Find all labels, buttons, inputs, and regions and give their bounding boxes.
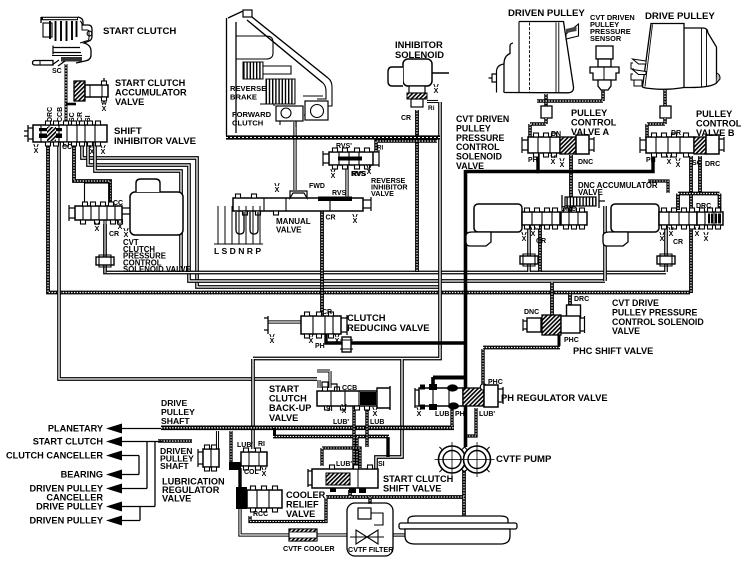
svg-text:RCC: RCC xyxy=(253,511,268,518)
svg-text:LUB': LUB' xyxy=(479,411,495,418)
svg-text:X: X xyxy=(34,148,39,155)
svg-text:CR: CR xyxy=(326,215,336,222)
svg-text:BEARING: BEARING xyxy=(61,470,103,480)
svg-text:SHIFT VALVE: SHIFT VALVE xyxy=(383,484,441,494)
svg-text:VALVE B: VALVE B xyxy=(696,128,735,138)
svg-text:L S D N R P: L S D N R P xyxy=(214,246,261,256)
svg-text:PH: PH xyxy=(455,411,465,418)
svg-text:START: START xyxy=(269,384,299,394)
svg-text:CR: CR xyxy=(673,239,683,246)
svg-text:RVS: RVS xyxy=(352,171,367,178)
svg-text:START CLUTCH: START CLUTCH xyxy=(33,437,104,447)
svg-text:VALVE: VALVE xyxy=(162,494,191,504)
svg-text:SI: SI xyxy=(326,406,333,413)
svg-text:DNC: DNC xyxy=(578,159,593,166)
svg-text:PHC: PHC xyxy=(488,379,503,386)
svg-text:LUB': LUB' xyxy=(336,461,352,468)
svg-text:X: X xyxy=(695,231,700,238)
svg-text:DN: DN xyxy=(551,131,561,138)
svg-text:REDUCING VALVE: REDUCING VALVE xyxy=(347,322,429,333)
svg-text:SOLENOID VALVE: SOLENOID VALVE xyxy=(123,265,191,274)
svg-text:DRC: DRC xyxy=(574,296,589,303)
svg-text:CR: CR xyxy=(77,112,84,122)
svg-text:START CLUTCH: START CLUTCH xyxy=(115,78,186,88)
svg-text:SENSOR: SENSOR xyxy=(590,34,622,43)
svg-text:START CLUTCH: START CLUTCH xyxy=(103,26,176,37)
svg-text:SOLENOID: SOLENOID xyxy=(395,49,444,60)
svg-text:CR: CR xyxy=(401,115,411,122)
svg-text:VALVE: VALVE xyxy=(456,161,484,171)
svg-text:DRC: DRC xyxy=(696,203,711,210)
svg-text:SC: SC xyxy=(69,112,76,122)
svg-text:PLANETARY: PLANETARY xyxy=(48,424,103,434)
svg-text:VALVE: VALVE xyxy=(115,97,144,107)
svg-text:X: X xyxy=(118,224,123,231)
svg-text:CCB: CCB xyxy=(57,107,64,122)
svg-text:X: X xyxy=(669,231,674,238)
svg-text:SI: SI xyxy=(85,115,92,122)
svg-text:X: X xyxy=(335,338,340,345)
svg-text:RVS: RVS xyxy=(332,190,347,197)
svg-text:PH: PH xyxy=(528,157,538,164)
svg-text:PH: PH xyxy=(646,157,656,164)
svg-text:LUB': LUB' xyxy=(333,419,349,426)
svg-text:PH: PH xyxy=(315,343,325,350)
svg-text:X: X xyxy=(342,408,347,415)
svg-text:X: X xyxy=(660,236,665,243)
svg-text:BACK-UP: BACK-UP xyxy=(269,403,311,413)
svg-text:CC: CC xyxy=(113,200,123,207)
svg-text:X: X xyxy=(551,159,556,166)
svg-text:LUB: LUB xyxy=(370,419,384,426)
svg-text:DNC: DNC xyxy=(561,206,576,213)
svg-text:CVTF FILTER: CVTF FILTER xyxy=(348,545,394,554)
svg-text:LUB: LUB xyxy=(435,411,449,418)
svg-text:X: X xyxy=(704,236,709,243)
svg-text:X: X xyxy=(275,187,280,194)
svg-text:VALVE A: VALVE A xyxy=(571,127,609,137)
svg-text:DNC: DNC xyxy=(524,309,539,316)
svg-text:VALVE: VALVE xyxy=(612,326,640,336)
svg-text:RI: RI xyxy=(377,145,383,152)
svg-text:X: X xyxy=(522,236,527,243)
svg-text:X: X xyxy=(90,149,95,156)
svg-text:X: X xyxy=(353,218,358,225)
svg-text:PHC SHIFT VALVE: PHC SHIFT VALVE xyxy=(573,346,653,356)
svg-text:SI: SI xyxy=(378,461,385,468)
svg-text:CLUTCH: CLUTCH xyxy=(232,118,263,127)
svg-text:SC: SC xyxy=(692,160,702,167)
svg-text:X: X xyxy=(262,471,267,478)
svg-text:CLUTCH CANCELLER: CLUTCH CANCELLER xyxy=(6,451,103,461)
svg-text:SHAFT: SHAFT xyxy=(160,461,189,471)
svg-text:INHIBITOR VALVE: INHIBITOR VALVE xyxy=(114,136,197,147)
svg-text:CR: CR xyxy=(536,238,546,245)
svg-text:PH REGULATOR VALVE: PH REGULATOR VALVE xyxy=(501,392,608,403)
svg-text:DR: DR xyxy=(671,130,681,137)
svg-text:VALVE: VALVE xyxy=(286,509,315,519)
svg-text:X: X xyxy=(95,226,100,233)
svg-text:DRC: DRC xyxy=(705,161,720,168)
svg-text:X: X xyxy=(667,159,672,166)
svg-text:CANCELLER: CANCELLER xyxy=(46,493,103,503)
svg-text:CC: CC xyxy=(62,144,72,151)
svg-text:X: X xyxy=(367,169,372,176)
svg-text:DRIVE PULLEY: DRIVE PULLEY xyxy=(645,11,715,22)
svg-text:X: X xyxy=(373,411,378,418)
svg-text:CVTF COOLER: CVTF COOLER xyxy=(283,544,335,553)
svg-text:CR: CR xyxy=(109,231,119,238)
svg-text:START CLUTCH: START CLUTCH xyxy=(383,474,454,484)
svg-text:PHC: PHC xyxy=(564,337,579,344)
svg-text:RI: RI xyxy=(258,441,265,448)
svg-text:X: X xyxy=(434,88,439,95)
svg-text:ACCUMULATOR: ACCUMULATOR xyxy=(115,88,187,98)
svg-text:CVTF PUMP: CVTF PUMP xyxy=(496,454,552,465)
svg-text:VALVE: VALVE xyxy=(276,226,302,235)
svg-text:X: X xyxy=(101,149,106,156)
svg-text:X: X xyxy=(331,173,336,180)
svg-text:DRC: DRC xyxy=(47,107,54,122)
svg-text:CR: CR xyxy=(322,309,332,316)
svg-text:X: X xyxy=(309,338,314,345)
svg-text:RELIEF: RELIEF xyxy=(286,500,319,510)
svg-text:X: X xyxy=(102,106,107,113)
svg-text:Ri: Ri xyxy=(428,105,435,112)
svg-text:X: X xyxy=(531,231,536,238)
svg-text:SC: SC xyxy=(52,68,62,75)
svg-text:VALVE: VALVE xyxy=(371,189,394,198)
svg-text:SHAFT: SHAFT xyxy=(161,416,190,426)
svg-text:X: X xyxy=(270,338,275,345)
svg-text:FWD: FWD xyxy=(309,183,325,190)
svg-text:DRIVEN PULLEY: DRIVEN PULLEY xyxy=(29,516,103,526)
svg-text:BRAKE: BRAKE xyxy=(230,92,257,101)
svg-text:CCB: CCB xyxy=(342,385,357,392)
svg-text:X: X xyxy=(676,162,681,169)
svg-text:VALVE: VALVE xyxy=(269,413,298,423)
svg-text:CLUTCH: CLUTCH xyxy=(269,394,307,404)
svg-text:DRIVEN PULLEY: DRIVEN PULLEY xyxy=(508,8,585,19)
svg-text:DRIVE PULLEY: DRIVE PULLEY xyxy=(36,502,103,512)
svg-text:COL: COL xyxy=(244,469,260,476)
svg-text:X: X xyxy=(417,411,422,418)
svg-text:COOLER: COOLER xyxy=(286,490,326,500)
svg-text:X: X xyxy=(560,162,565,169)
